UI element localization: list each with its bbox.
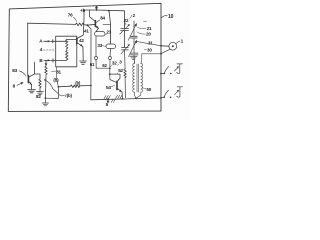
wire from node down to ground bus: [45, 87, 58, 99]
label (b) with curved leader: [59, 93, 73, 98]
svg-text:83: 83: [12, 68, 17, 73]
wire from node to collector drop: [110, 73, 120, 75]
wire pill23 bottom to coupling loop: [95, 36, 97, 57]
bias divider resistors inside box 4: [56, 40, 77, 61]
label 32: [110, 61, 117, 67]
output terminal 1 (circle with dot): [161, 42, 177, 53]
junction on rail: [108, 10, 110, 12]
label 31: [148, 40, 153, 45]
svg-text:20: 20: [146, 32, 151, 37]
stem and tie wire: [96, 60, 110, 69]
wire drop to ground rail: [90, 86, 92, 100]
node junction: [58, 86, 60, 88]
label 21: [138, 26, 152, 31]
trimmer capacitor 31/30: [129, 40, 139, 57]
svg-text:(b): (b): [53, 77, 59, 82]
label (b) for R78: [73, 80, 81, 87]
label 33: [97, 43, 106, 48]
svg-text:81: 81: [56, 69, 61, 74]
switch S2 (lower right): [161, 91, 171, 99]
svg-text:23: 23: [106, 30, 111, 35]
node junction at base network: [86, 24, 88, 26]
svg-text:(b): (b): [75, 80, 81, 85]
svg-text:32: 32: [112, 61, 117, 66]
svg-text:10: 10: [168, 14, 174, 20]
svg-text:52: 52: [118, 68, 123, 73]
label 50: [143, 87, 152, 92]
svg-text:50: 50: [146, 87, 151, 92]
label 2 (speck top right): [130, 13, 147, 22]
second tuning column wire: [133, 21, 135, 36]
label 54: [106, 85, 115, 90]
ground hatch below tuning column: [130, 56, 137, 59]
svg-text:r(b): r(b): [65, 93, 72, 98]
svg-text:22: 22: [124, 18, 129, 23]
label 23: [105, 30, 112, 35]
stub wire at base level: [103, 24, 111, 26]
svg-text:54: 54: [106, 85, 111, 90]
wire S-curve from pot region to node: [44, 79, 46, 81]
svg-text:41: 41: [84, 28, 89, 33]
wire: left column (base feed of Q83): [27, 23, 29, 75]
transistor Q42: [77, 10, 84, 61]
label 4 (dashed leader): [40, 47, 54, 52]
collector feed vertical (rail to filter 33): [109, 11, 111, 44]
svg-text:76: 76: [68, 12, 73, 17]
svg-text:30: 30: [147, 47, 152, 52]
switch S1 (upper right): [160, 67, 172, 75]
label 84: [97, 15, 106, 22]
input box 4: [56, 36, 77, 67]
label 22: [124, 18, 129, 26]
ground under Q42 emitter: [80, 61, 87, 64]
svg-text:42: 42: [79, 38, 84, 43]
label 3: [118, 59, 123, 65]
label 52: [117, 68, 124, 74]
ground under pot bus: [44, 98, 46, 103]
label 83: [12, 68, 26, 76]
transformer T50: [133, 53, 162, 99]
capacitor 23 (pill): [95, 32, 106, 36]
svg-text:33: 33: [97, 43, 102, 48]
label 30: [144, 47, 152, 52]
terminal 5 arrow marker: [106, 99, 110, 107]
trimmer capacitor 3 (lower on rail drop): [121, 44, 130, 54]
resistor R78 on wire to output stage: [58, 85, 91, 88]
jack J2: [175, 87, 183, 97]
+B supply rail: [84, 10, 125, 28]
wire junction down to long vertical: [87, 25, 91, 85]
filter 33 (pill): [106, 44, 116, 49]
label 10: [161, 14, 173, 20]
svg-text:84: 84: [100, 15, 105, 20]
junction on rail: [83, 9, 85, 11]
svg-text:61: 61: [90, 62, 95, 67]
resistor R76 (base feed wire with zigzag): [28, 23, 88, 26]
terminal A: [39, 39, 56, 44]
label 20: [137, 32, 151, 37]
svg-text:21: 21: [147, 26, 152, 31]
coupling loop 62: [109, 57, 112, 60]
output wire from tuning caps to terminal 1: [137, 42, 161, 46]
label 81: [52, 69, 62, 74]
trimmer capacitor 22: [120, 24, 130, 34]
jack J1: [175, 64, 183, 74]
junction at long vertical: [90, 85, 92, 87]
terminal B: [39, 58, 55, 63]
coupling loop 61: [95, 57, 98, 60]
transistor Q54: [117, 74, 122, 99]
junction and wire down to Q54: [109, 67, 111, 69]
junction dots on rail: [107, 98, 109, 100]
ground hatches on rail: [104, 95, 122, 102]
enclosure box 10 (border): [8, 3, 161, 111]
resistor R52 (vertical): [124, 31, 126, 98]
trimmer capacitor 21/20: [128, 23, 137, 40]
label 8: [13, 82, 24, 88]
svg-text:82: 82: [36, 94, 41, 99]
svg-text:62: 62: [102, 63, 107, 68]
transistor Q84: [87, 10, 98, 32]
ground under Q83 emitter: [28, 85, 36, 93]
transistor Q83: [28, 62, 34, 84]
resistor R82: [35, 74, 44, 95]
stem from loop 62: [109, 60, 111, 69]
wire from box-4 bottom down to node: [57, 67, 59, 87]
label 1: [176, 39, 183, 44]
potentiometer 81 (volume) with arrow: [45, 60, 48, 98]
label 76: [68, 12, 77, 21]
wire pill33 bottom to loop 62: [109, 49, 112, 57]
ground rail: [91, 98, 161, 100]
+B arrow: [80, 5, 98, 13]
svg-text:31: 31: [148, 40, 153, 45]
